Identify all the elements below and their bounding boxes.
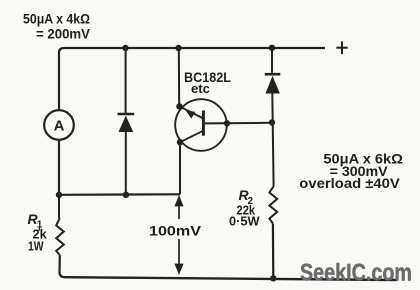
svg-text:SeekIC.com: SeekIC.com — [300, 260, 412, 287]
wire base lead to right branch — [205, 122, 272, 125]
node bottom rail junction at right branch — [270, 275, 276, 281]
wire ammeter to mid rail — [58, 140, 60, 195]
resistor R2 zigzag — [269, 186, 277, 224]
svg-text:1W: 1W — [28, 239, 44, 253]
diode D1 cathode up — [118, 114, 135, 132]
svg-text:etc: etc — [191, 82, 210, 96]
meter A1 — [44, 110, 74, 140]
node collector junction — [177, 139, 183, 145]
wire collector down to mid rail — [179, 142, 181, 194]
node mid rail center — [123, 192, 129, 198]
label R2 value — [229, 187, 260, 228]
wire right branch upper — [271, 48, 273, 73]
label 50uA x 6k ohm block — [299, 151, 403, 192]
svg-text:50μA x 4kΩ: 50μA x 4kΩ — [23, 11, 90, 27]
measurement arrow 100mV lower segment — [176, 239, 183, 273]
wire top rail with left corner down to ammeter — [59, 48, 325, 110]
node top rail junction at right branch — [269, 45, 275, 51]
wire transistor emitter branch from rail — [178, 48, 180, 106]
svg-text:A: A — [54, 118, 65, 135]
node top rail junction at transistor branch — [175, 45, 181, 51]
plus supply terminal — [336, 41, 347, 54]
transistor Q1 BC182L — [175, 99, 227, 151]
node base at transistor circle edge — [224, 120, 230, 126]
resistor R1 zigzag — [56, 218, 64, 255]
svg-text:overload ±40V: overload ±40V — [299, 175, 400, 191]
wire R1 top lead — [58, 195, 60, 218]
node mid rail left — [56, 192, 62, 198]
node emitter junction — [176, 103, 182, 109]
wire bottom rail — [64, 277, 397, 280]
measurement arrow 100mV upper segment — [176, 197, 183, 219]
svg-text:100mV: 100mV — [149, 222, 202, 238]
wire right branch lower — [272, 224, 275, 279]
diode D2 cathode up — [265, 74, 281, 93]
wire mid rail — [59, 193, 180, 196]
node base joins right branch — [269, 119, 275, 125]
node top rail junction at middle branch — [122, 45, 128, 51]
wire middle branch lower — [125, 132, 127, 195]
wire R1 bottom lead with corner to bottom rail — [60, 255, 65, 277]
svg-text:0·5W: 0·5W — [229, 214, 260, 228]
wire right branch middle — [272, 94, 273, 187]
svg-text:= 200mV: = 200mV — [36, 26, 91, 42]
wire middle branch upper — [125, 48, 127, 113]
label R1 value — [28, 211, 47, 253]
